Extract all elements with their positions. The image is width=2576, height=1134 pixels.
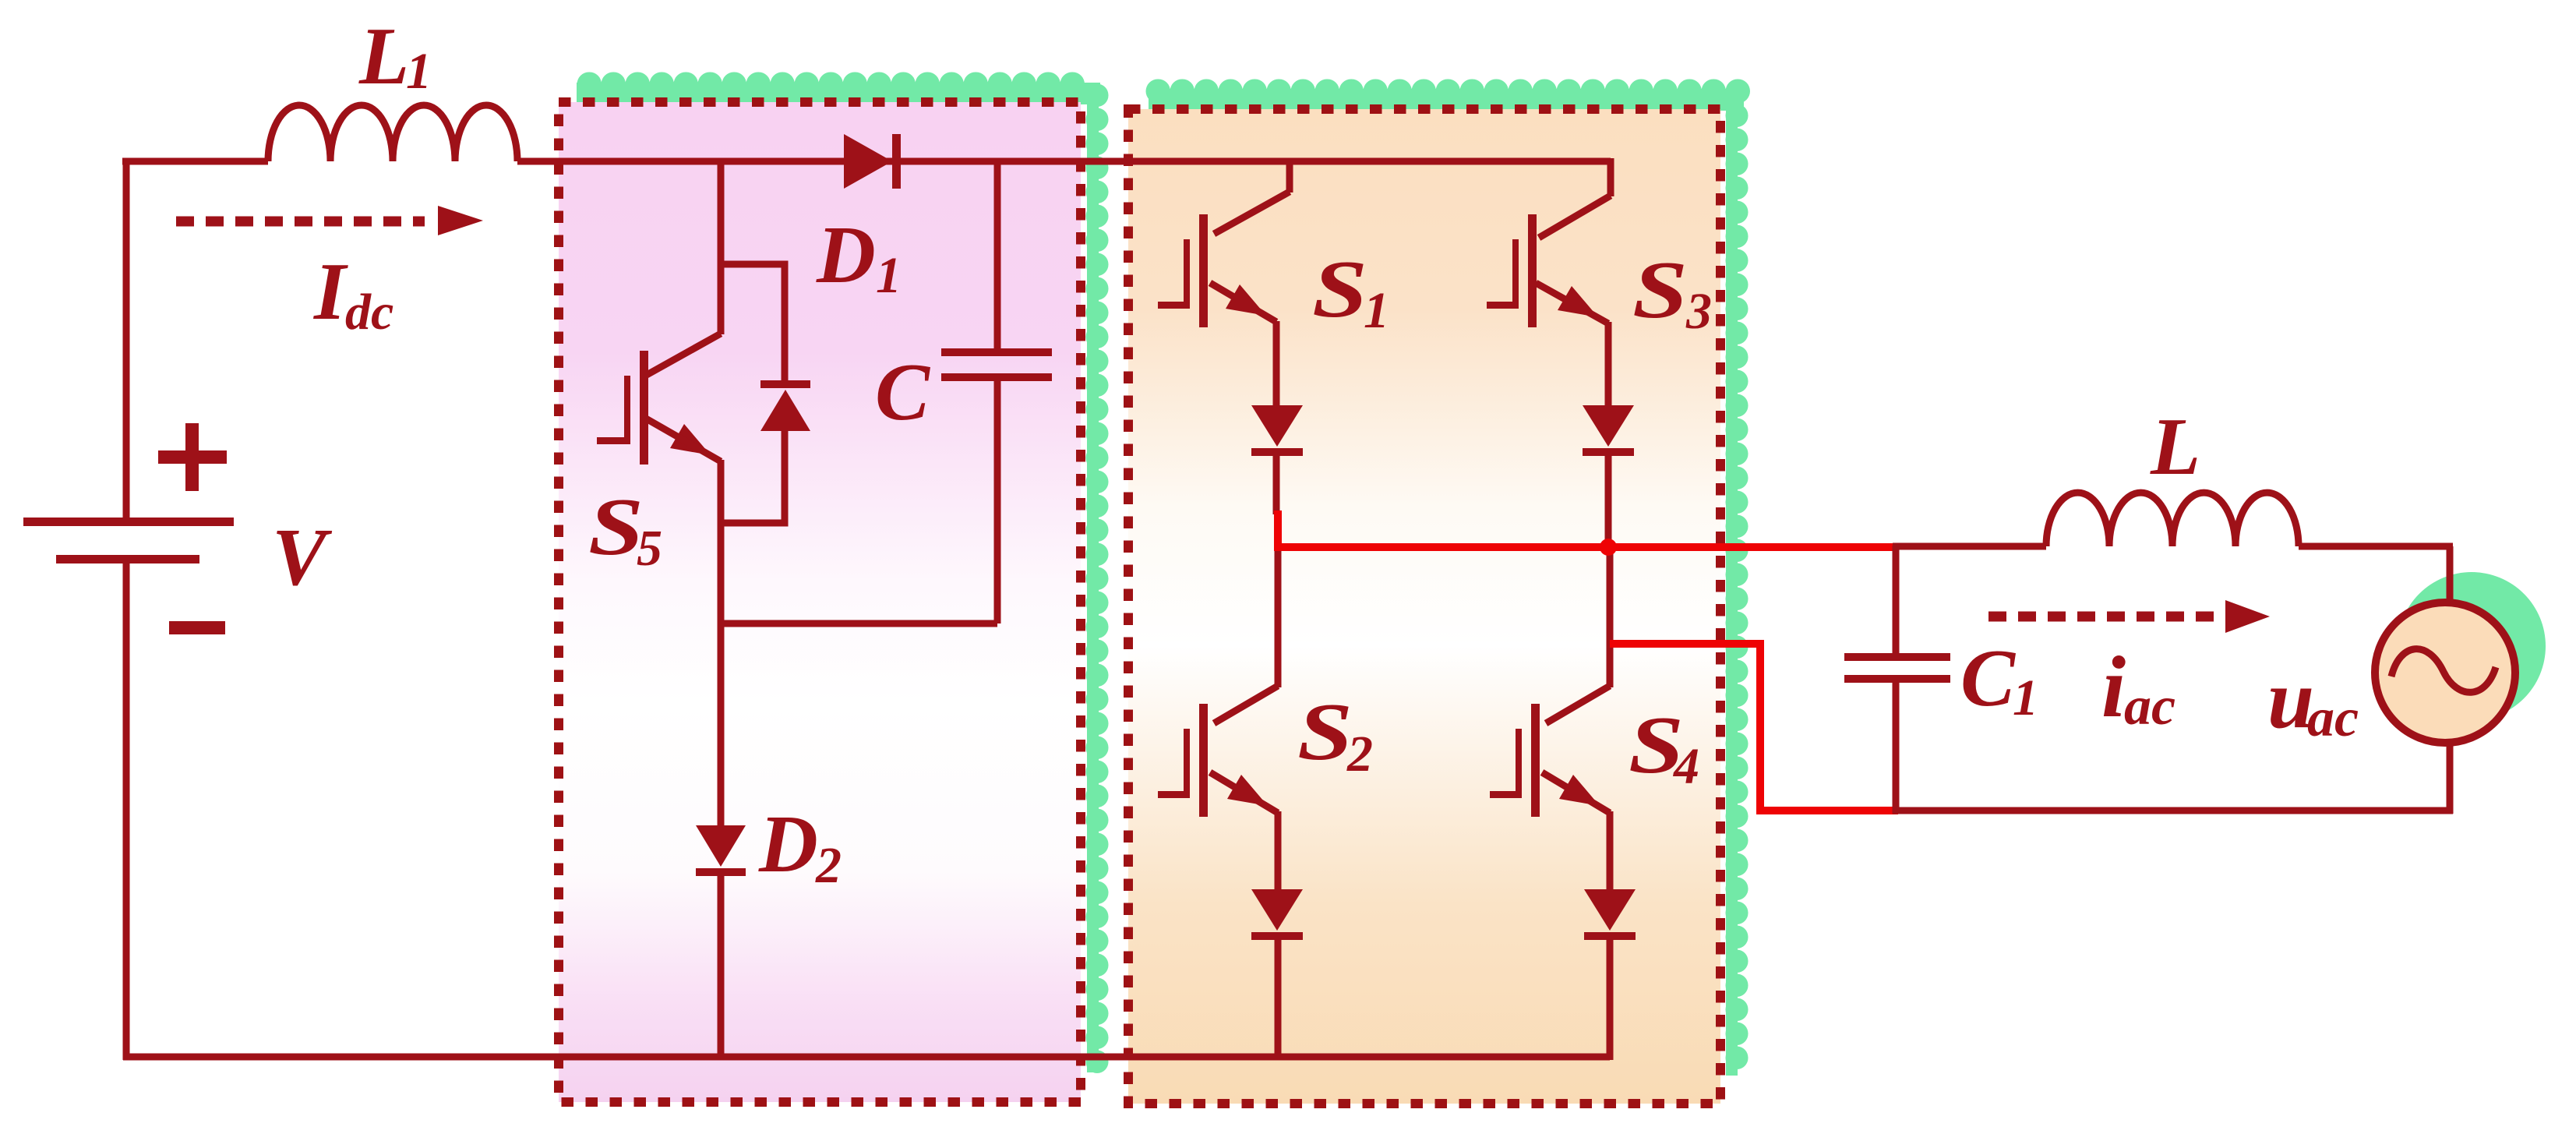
wire: S1 collector diagonal [1214,192,1290,234]
AC source u_ac circle [2375,602,2515,743]
wire: S2 series diode to bottom bus [1275,937,1282,1057]
svg-text:2: 2 [1346,726,1373,782]
wire: capacitor C branch from top rail [994,161,1001,348]
wire: S4 emitter to series diode [1607,811,1614,889]
wire: top rail, battery corner to L1 [122,158,268,165]
plus sign of battery [158,423,227,491]
wire: S5 emitter vertical down to D2 [718,460,725,827]
svg-text:5: 5 [637,520,662,577]
minus sign of battery [169,621,225,634]
wire: bright red output wire from node A to filter [1275,543,1896,551]
inductor L [2046,493,2299,546]
svg-text:S: S [588,481,644,572]
wire: left vertical, battery negative plate to bottom bus [123,563,130,1060]
wire: S4 emitter diagonal [1542,772,1610,813]
green scallop trim, right of boost-cell box [1087,83,1099,1072]
series diode of S1 [1251,405,1303,456]
svg-text:1: 1 [406,43,432,100]
wire: S2 collector from output node A [1275,550,1282,687]
wire: capacitor C1 lower lead [1893,683,1900,814]
diode D2 [696,825,746,876]
boost converter cell enclosure (pink dashed box) [559,102,1081,1102]
wire: S3 series diode to junction on output wire [1605,454,1612,550]
battery V negative plate [56,555,199,563]
svg-text:1: 1 [2013,669,2038,726]
svg-text:L: L [2150,401,2200,492]
wire: S3 emitter to series diode [1605,322,1612,407]
wire: C bottom to S5 emitter node [721,620,997,627]
wire: S3 emitter diagonal [1536,283,1608,323]
IGBT S1 [1158,214,1266,327]
wire: S2 emitter diagonal [1210,772,1278,813]
H-bridge inverter enclosure (orange dashed box) [1128,109,1720,1104]
wire: S2 emitter to series diode [1275,811,1282,889]
wire: output loop top, C1 to L [1893,543,2046,550]
i_ac current direction arrow (dashed) [1988,600,2270,633]
wire: branch to anti-parallel diode of S5 (top) [721,264,785,383]
svg-text:dc: dc [345,284,393,341]
svg-text:S: S [1297,686,1353,777]
series diode of S4 [1584,889,1636,940]
wire: S1 emitter diagonal [1210,283,1276,322]
svg-text:L: L [358,10,409,101]
wire: bottom return bus [123,1054,1610,1061]
wire: S4 collector from junction, with node B tap [1607,547,1614,687]
svg-text:I: I [312,246,348,337]
green shadow disc behind AC source [2398,572,2546,720]
wire: S3 collector diagonal [1539,196,1611,238]
sine wave glyph inside AC source [2391,649,2496,693]
svg-text:V: V [272,511,333,602]
svg-text:1: 1 [876,247,902,304]
junction dot at S3/S4 midpoint on output wire [1600,539,1617,556]
svg-text:C: C [1960,632,2017,723]
wire: top rail, L1 to S3 collector corner (through D1) [517,158,1611,165]
green scallop trim, top of H-bridge box [1149,89,1744,111]
svg-text:3: 3 [1685,283,1712,340]
wire: S3 collector corner from top rail [1607,158,1614,196]
wire: S1 collector tap from top rail [1286,161,1293,193]
svg-text:ac: ac [2124,677,2175,737]
I_dc current direction arrow (dashed) [176,206,483,235]
wire: output loop bottom [1893,807,2453,814]
wire: S5 collector drop from top rail [718,161,725,334]
diode D1 (on top rail) [844,134,901,189]
wire: D2 cathode to bottom bus [718,874,725,1057]
svg-text:S: S [1312,243,1367,334]
svg-text:1: 1 [1364,282,1389,339]
svg-text:2: 2 [815,837,842,894]
svg-text:C: C [875,346,931,437]
svg-text:ac: ac [2307,688,2359,748]
wire: anti-parallel diode of S5 to emitter (bottom) [721,429,785,523]
battery V positive plate [23,518,234,526]
wire: capacitor C1 upper lead [1893,546,1900,653]
wire: AC source bottom to loop corner [2447,740,2454,814]
IGBT S4 [1490,704,1600,817]
wire: S5 collector diagonal into IGBT bar [647,334,721,375]
wire: S4 series diode to bottom bus [1607,937,1614,1060]
wire: S2 collector diagonal [1214,686,1278,723]
capacitor C plates [941,348,1052,381]
IGBT S5 [597,351,711,465]
wire: S1 series diode to output node A [1273,454,1280,514]
svg-text:D: D [758,798,818,889]
wire: left vertical, top rail to battery positive plate [123,158,130,518]
wire: S4 collector diagonal [1546,686,1610,723]
svg-text:S: S [1632,244,1688,335]
IGBT S2 [1158,704,1268,817]
wire: capacitor C lower lead [994,381,1001,624]
svg-text:i: i [2101,639,2126,736]
svg-text:D: D [816,209,876,300]
wire: S1 emitter to series diode [1273,321,1280,407]
svg-text:4: 4 [1672,738,1699,795]
inductor L1 [268,105,517,161]
wire: bright red return wire from node B to filter [1610,644,1898,811]
wire: right vertical into AC source top [2447,546,2454,602]
anti-parallel diode of S5 [760,380,810,431]
wire: output loop top, L to corner [2299,543,2453,550]
series diode of S3 [1583,405,1634,456]
green scallop trim, right of H-bridge box [1726,100,1738,1076]
green scallop trim, top of boost-cell box [577,83,1100,104]
wire: bright red stub above node A [1274,510,1282,551]
capacitor C1 plates [1844,653,1950,683]
series diode of S2 [1251,889,1303,940]
IGBT S3 [1487,214,1598,327]
IGBT S5 emitter line with arrow [646,419,721,461]
